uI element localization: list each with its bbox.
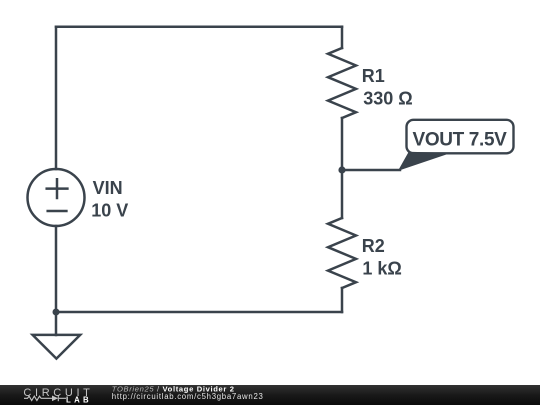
ground bbox=[33, 335, 81, 359]
svg-text:R2: R2 bbox=[362, 236, 385, 256]
node VOUT callout pointer bbox=[399, 152, 448, 170]
svg-text:330 Ω: 330 Ω bbox=[363, 89, 412, 109]
wire right upper (top rail to R1) bbox=[341, 27, 344, 48]
svg-text:10 V: 10 V bbox=[91, 201, 128, 221]
svg-text:VIN: VIN bbox=[93, 178, 123, 198]
wire left lower (VIN- down to ground) bbox=[55, 226, 58, 335]
footer bar bbox=[0, 385, 540, 405]
VIN minus sign bbox=[48, 210, 67, 213]
junction ground node bbox=[53, 309, 60, 316]
svg-text:R1: R1 bbox=[362, 66, 385, 86]
resistor R2 bbox=[328, 218, 356, 288]
wire top (VIN+ to R1 top) bbox=[56, 25, 342, 28]
wire bottom (ground node to R2 bottom) bbox=[56, 311, 342, 314]
wire left upper (top rail down to VIN) bbox=[55, 27, 58, 169]
voltage source VIN body bbox=[28, 169, 85, 226]
wire node VOUT to callout bbox=[342, 169, 400, 172]
svg-text:http://circuitlab.com/c5h3gba7: http://circuitlab.com/c5h3gba7awn23 bbox=[112, 392, 264, 401]
VIN plus sign bbox=[47, 179, 68, 198]
junction node VOUT bbox=[338, 166, 345, 173]
wire mid right (R1 bottom to R2 top through node VOUT) bbox=[341, 118, 344, 218]
svg-text:VOUT 7.5V: VOUT 7.5V bbox=[413, 130, 508, 151]
wire right lower (R2 bottom to bottom rail) bbox=[341, 288, 344, 312]
svg-text:1 kΩ: 1 kΩ bbox=[362, 259, 401, 279]
svg-text:LAB: LAB bbox=[66, 396, 92, 405]
logo diode arrow bbox=[52, 396, 58, 402]
node VOUT callout box bbox=[407, 120, 514, 154]
logo resistor-diode squiggle bbox=[24, 395, 66, 401]
resistor R1 bbox=[328, 48, 356, 118]
